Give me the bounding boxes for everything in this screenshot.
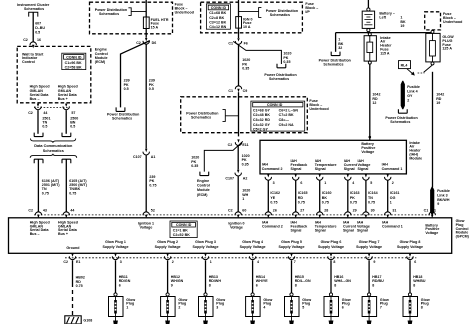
instrument cluster schematics label [17, 3, 50, 11]
svg-text:BK/WH: BK/WH [437, 198, 450, 202]
svg-text:C1=1 BK: C1=1 BK [173, 229, 188, 233]
svg-text:Schematics: Schematics [191, 115, 211, 119]
RL4 pointer arrow [407, 69, 413, 75]
svg-text:Link 4: Link 4 [407, 89, 418, 93]
IAH exit pins [265, 174, 271, 180]
svg-text:0.75: 0.75 [76, 284, 83, 288]
claw power distribution (branch end) [116, 107, 125, 111]
svg-text:19: 19 [400, 24, 404, 28]
glow plug 6 [324, 293, 339, 324]
svg-text:Glow Plug 3: Glow Plug 3 [195, 240, 216, 244]
svg-text:6: 6 [414, 260, 416, 264]
svg-text:0.75: 0.75 [298, 200, 305, 204]
GPCM label [456, 219, 470, 238]
svg-text:Glow Plug 6: Glow Plug 6 [321, 240, 342, 244]
svg-text:PK: PK [350, 196, 355, 200]
fusible link 3 label [437, 189, 450, 206]
svg-text:C1: C1 [424, 209, 429, 213]
svg-text:Voltage: Voltage [361, 150, 374, 154]
svg-text:607: 607 [35, 22, 41, 26]
ECM title text right of box [95, 48, 108, 65]
wire fuse to C2 D6 [145, 29, 147, 38]
svg-text:Signal: Signal [315, 228, 326, 232]
svg-text:Bus –: Bus – [30, 232, 40, 236]
svg-text:125 A: 125 A [442, 47, 452, 51]
wire 1042 RD 19 down right side [432, 72, 434, 187]
ground G108 [65, 316, 81, 324]
svg-text:43: 43 [43, 209, 47, 213]
glow plug fuse label [442, 35, 454, 51]
label 607 D-BU 0.5 [35, 22, 45, 35]
svg-text:C8=—: C8=— [279, 118, 290, 122]
svg-text:D6: D6 [152, 41, 157, 45]
svg-text:C7=2 BK: C7=2 BK [279, 113, 294, 117]
wire main 1020 PK to C1 C9 [238, 45, 240, 86]
inline connector C107 A1 [143, 149, 149, 155]
svg-text:9: 9 [171, 283, 173, 287]
svg-text:Left: Left [379, 16, 386, 20]
svg-text:29: 29 [353, 209, 357, 213]
wire fusible link 3 to GPCM C1 [431, 205, 433, 212]
svg-text:0.5: 0.5 [70, 125, 75, 129]
svg-text:0.5: 0.5 [35, 30, 40, 34]
svg-text:C1=68 GY: C1=68 GY [253, 108, 271, 112]
wire into IGN 0 fuse [238, 0, 240, 17]
GPCM top pin number labels [28, 209, 436, 213]
high speed gmlan bus - label [30, 85, 50, 102]
IAH module label [409, 141, 422, 161]
svg-text:A1: A1 [151, 155, 156, 159]
svg-text:2: 2 [172, 260, 174, 264]
relay contact blade [424, 65, 433, 73]
svg-text:Schematics: Schematics [270, 13, 290, 17]
wire branch to ECM reference [204, 141, 243, 171]
svg-text:57: 57 [71, 111, 75, 115]
svg-text:C1=96 BK: C1=96 BK [65, 61, 82, 65]
svg-text:Command 2: Command 2 [262, 224, 283, 228]
high speed gmlan bus + label [58, 85, 78, 102]
svg-text:Bus –: Bus – [30, 97, 40, 101]
svg-text:IC160: IC160 [322, 191, 332, 195]
svg-text:0.75: 0.75 [149, 183, 156, 187]
svg-text:10 A: 10 A [243, 25, 251, 29]
wire main 239 PK to C107 A1 [145, 44, 147, 148]
svg-text:0.35: 0.35 [283, 60, 290, 64]
label IGN 0 fuse [243, 17, 253, 29]
wire glow plug 2 supply [167, 260, 169, 293]
svg-text:RD/L–GN: RD/L–GN [295, 279, 311, 283]
svg-text:4: 4 [257, 260, 259, 264]
GPCM bottom exit pins [69, 254, 75, 260]
svg-text:6: 6 [256, 283, 258, 287]
GPCM inside top labels [30, 220, 440, 236]
label 1020 PK 0.35 (main) [242, 58, 250, 70]
IAH wires to GPCM [267, 181, 269, 212]
entry connector C1 C9 [235, 86, 241, 93]
svg-text:Supply Voltage: Supply Voltage [240, 245, 266, 249]
wire 607 D-BU (cluster to ECM) [32, 12, 34, 41]
svg-text:26: 26 [273, 209, 277, 213]
svg-text:C2=58 BK: C2=58 BK [65, 65, 82, 69]
svg-text:Engine: Engine [197, 179, 209, 183]
wire 1020 WH to GPCM 60 [237, 176, 239, 212]
ECM exit pin 44 [35, 104, 41, 110]
instrument cluster connector claw [29, 12, 38, 16]
label 6105 (A/T) 2500 (M/T) TN/BK 0.75 [69, 179, 88, 196]
svg-text:8: 8 [372, 283, 374, 287]
claw power distribution (battery branch) [331, 52, 340, 56]
wire 1042 RD to IAH module [369, 64, 371, 140]
IAH battery positive voltage label [361, 142, 375, 154]
label 1020 PK 0.35 (mid) [242, 154, 250, 166]
svg-text:C1: C1 [228, 42, 233, 46]
wire glow plug 5 supply [291, 260, 293, 293]
svg-text:9: 9 [437, 202, 439, 206]
ECM bottom connector dashed line [34, 107, 70, 109]
svg-text:IC162: IC162 [270, 191, 280, 195]
wire 6106/2501 TN to GPCM 43 [37, 159, 39, 212]
GPCM CONN ID table [170, 221, 197, 238]
fuse block underhood 1 label [175, 3, 194, 15]
svg-text:WH/L–GN: WH/L–GN [334, 279, 351, 283]
label HB02 RD 0.75 [76, 276, 85, 288]
svg-text:Supply Voltage: Supply Voltage [155, 245, 181, 249]
svg-text:GY: GY [407, 94, 413, 98]
svg-text:Fusible: Fusible [437, 189, 450, 193]
svg-text:2: 2 [178, 305, 180, 309]
label 239 PK 0.5 (main) [149, 79, 155, 91]
glow plug 3 [199, 293, 214, 324]
svg-text:F6: F6 [244, 42, 248, 46]
svg-text:44: 44 [43, 111, 47, 115]
svg-text:IC161: IC161 [390, 191, 400, 195]
svg-text:CONN ID: CONN ID [176, 223, 192, 227]
svg-text:OG: OG [390, 196, 396, 200]
fuse block underhood 2 dashed box [201, 2, 303, 33]
svg-text:RD: RD [298, 196, 304, 200]
fuse block 2 CONN ID table [206, 4, 230, 29]
wait to start indicator control label [22, 52, 44, 64]
svg-text:Signal: Signal [343, 228, 354, 232]
svg-text:C2: C2 [23, 38, 28, 42]
svg-text:115 A: 115 A [380, 51, 390, 55]
svg-text:Supply Voltage: Supply Voltage [397, 245, 423, 249]
label HB12 WH/GN 9 [171, 275, 184, 287]
inline connector C1 F6 [235, 38, 241, 44]
inline connector C2 D6 [143, 38, 149, 44]
svg-text:3: 3 [273, 181, 275, 185]
label FUEL HTR fuse [151, 18, 169, 30]
inline connector C2 E11 [235, 139, 241, 145]
wire glow plug 8 supply [409, 260, 411, 293]
svg-text:6: 6 [119, 283, 121, 287]
svg-text:C3=32 RD: C3=32 RD [253, 118, 270, 122]
svg-text:Module: Module [197, 188, 210, 192]
svg-text:C1: C1 [228, 89, 233, 93]
svg-text:0.5: 0.5 [42, 125, 47, 129]
wire glow plug 7 supply [368, 260, 370, 293]
svg-text:C9=2 NA: C9=2 NA [279, 123, 294, 127]
label 1020 WH 1 [242, 189, 250, 201]
svg-text:Voltage: Voltage [140, 225, 153, 229]
wire 6105/2500 TN/BK to GPCM 44 [65, 159, 67, 212]
svg-text:C9: C9 [243, 89, 248, 93]
label 1020 PK 0.35 (ecm branch) [191, 156, 199, 168]
glow plug 1 [109, 293, 124, 324]
svg-text:C3=12 BK: C3=12 BK [209, 20, 226, 24]
svg-text:BK: BK [322, 196, 328, 200]
svg-text:2: 2 [392, 181, 394, 185]
svg-text:8: 8 [413, 283, 415, 287]
wire through fuse block 3 [238, 92, 240, 136]
svg-text:1: 1 [242, 197, 244, 201]
data communication schematics label [34, 144, 73, 153]
svg-text:C4=32 GY: C4=32 GY [253, 123, 271, 127]
label 239 PK 0.5 (branch) [124, 79, 130, 91]
glow plug 5 [285, 293, 300, 324]
wire battery positive from top [367, 0, 369, 8]
svg-text:Data Communication: Data Communication [34, 144, 73, 148]
ECM pin C2 16 labels [23, 38, 41, 42]
GPCM bottom connector dashed line [65, 257, 416, 259]
svg-text:Schematics: Schematics [99, 12, 119, 16]
svg-text:C2=52 BK: C2=52 BK [173, 233, 190, 237]
svg-text:1: 1 [324, 181, 326, 185]
glow plug 7 [362, 293, 377, 324]
svg-text:Signal: Signal [358, 167, 369, 171]
label 2500 BN 0.5 [70, 116, 78, 128]
svg-text:28: 28 [324, 209, 328, 213]
junction node at battery [367, 31, 369, 33]
IAH wire labels [270, 191, 399, 204]
wire fuse to C1 F6 [238, 28, 240, 38]
svg-text:Glow Plug 2: Glow Plug 2 [157, 240, 178, 244]
svg-text:Bus +: Bus + [58, 232, 68, 236]
svg-text:19: 19 [436, 101, 440, 105]
intake air heater fuse label [380, 36, 392, 56]
label HB15 RD/L-GN 8 [295, 275, 311, 287]
svg-text:7: 7 [380, 305, 382, 309]
svg-text:Signal: Signal [344, 167, 355, 171]
svg-text:Supply Voltage: Supply Voltage [318, 245, 344, 249]
svg-text:4: 4 [352, 181, 354, 185]
fusible link 4 [401, 81, 405, 110]
svg-text:(ECM): (ECM) [197, 193, 208, 197]
svg-text:30: 30 [371, 209, 375, 213]
fuse FUEL HTR 15A [143, 17, 149, 29]
svg-text:C4=12 BN: C4=12 BN [209, 25, 226, 29]
svg-text:Underhood: Underhood [443, 20, 462, 24]
label 1042 RD 19 [436, 93, 444, 105]
wire battery feed into fuel htr fuse [145, 0, 147, 17]
ECM module dashed box [17, 46, 91, 102]
GPCM bottom pin labels [63, 260, 416, 264]
svg-text:0.35: 0.35 [191, 164, 198, 168]
svg-text:E11: E11 [242, 143, 248, 147]
svg-text:C6=2 L–GN: C6=2 L–GN [279, 108, 299, 112]
battery bus wire [336, 32, 431, 34]
svg-text:Supply Voltage: Supply Voltage [103, 245, 129, 249]
wire branch to power distribution (right) [233, 41, 281, 64]
svg-text:52: 52 [151, 209, 155, 213]
fuse block 3 CONN ID table [251, 101, 305, 131]
svg-text:Schematics: Schematics [390, 120, 410, 124]
svg-text:Ground: Ground [66, 246, 79, 250]
svg-text:Schematics: Schematics [43, 149, 64, 153]
intake air heater fuse holder [368, 33, 371, 36]
glow plug fuse holder [431, 30, 434, 33]
fuse block underhood 1 dashed box [90, 2, 173, 34]
wire 2501 TN (bus -) [37, 110, 39, 134]
svg-text:0.75: 0.75 [42, 191, 49, 195]
svg-text:IC164: IC164 [368, 191, 378, 195]
svg-text:0.75: 0.75 [368, 200, 375, 204]
claw over wire 6105 [62, 159, 71, 163]
svg-text:8: 8 [209, 283, 211, 287]
svg-text:Underhood: Underhood [309, 107, 328, 111]
svg-text:1: 1 [210, 260, 212, 264]
wire main 1020 to C107 A2 [237, 146, 239, 170]
svg-text:Schematics: Schematics [269, 77, 289, 81]
svg-text:32: 32 [338, 46, 342, 50]
svg-text:CONN ID: CONN ID [66, 55, 82, 59]
svg-text:I/P: I/P [305, 10, 310, 14]
label 239 PK 0.75 [149, 175, 156, 187]
IAH pin labels inside box [262, 159, 403, 171]
battery left label [379, 12, 395, 20]
claw power distribution (branch) [277, 64, 286, 68]
svg-text:0.5: 0.5 [124, 87, 129, 91]
svg-text:Glow Plug 1: Glow Plug 1 [105, 240, 126, 244]
svg-text:E1: E1 [76, 260, 80, 264]
svg-text:31: 31 [392, 209, 396, 213]
wire branch left to power distribution [335, 33, 337, 52]
svg-text:1: 1 [390, 200, 392, 204]
svg-text:CONN ID: CONN ID [211, 6, 227, 10]
svg-text:C2: C2 [28, 209, 33, 213]
claw ECM reference [200, 172, 209, 176]
svg-text:Signal: Signal [315, 167, 326, 171]
IAH module box [260, 140, 406, 174]
svg-text:Bus +: Bus + [58, 97, 68, 101]
inline connector C107 A2 [235, 170, 241, 176]
svg-text:D–BU: D–BU [35, 26, 45, 30]
svg-text:6: 6 [300, 181, 302, 185]
svg-text:4: 4 [263, 305, 265, 309]
IAH pin numbers [273, 181, 394, 185]
svg-text:Glow Plug 4: Glow Plug 4 [242, 240, 263, 244]
svg-text:9: 9 [373, 260, 375, 264]
ECM exit pin 57 [63, 104, 69, 110]
svg-text:16: 16 [37, 38, 41, 42]
svg-text:0.35: 0.35 [242, 162, 249, 166]
fusible link 4 label [407, 85, 420, 103]
svg-text:0.5: 0.5 [149, 87, 154, 91]
svg-text:8: 8 [421, 305, 423, 309]
svg-text:Link 3: Link 3 [437, 193, 448, 197]
svg-text:(ECM): (ECM) [95, 60, 106, 64]
svg-text:C2=48 BK: C2=48 BK [253, 113, 270, 117]
svg-text:0.75: 0.75 [270, 200, 277, 204]
svg-text:44: 44 [70, 209, 74, 213]
svg-text:Command 1: Command 1 [382, 224, 403, 228]
claw over wire 6106 [34, 159, 43, 163]
junction dot above IAH module [369, 136, 372, 139]
wire glow plug 6 supply [330, 260, 332, 293]
label 1042 RD 12 [372, 93, 380, 105]
svg-text:C5=2 GY: C5=2 GY [253, 128, 269, 132]
svg-text:Supply Voltage: Supply Voltage [279, 245, 305, 249]
GPCM inside bottom labels [66, 240, 423, 250]
svg-text:Voltage: Voltage [230, 225, 243, 229]
label HB18 WH/BU 8 [413, 275, 426, 287]
svg-text:0.75: 0.75 [69, 191, 76, 195]
svg-text:Schematics: Schematics [24, 7, 44, 11]
svg-text:C107: C107 [225, 177, 234, 181]
svg-text:Fusible: Fusible [407, 85, 420, 89]
GPCM top entry pin arrows [35, 212, 41, 219]
svg-text:Schematics: Schematics [112, 116, 132, 120]
svg-text:6: 6 [342, 305, 344, 309]
label HB11 RD/GN 6 [119, 275, 131, 287]
wire 239 PK 0.75 to GPCM 52 [145, 155, 147, 212]
svg-text:IC165: IC165 [298, 191, 308, 195]
svg-text:3: 3 [216, 305, 218, 309]
svg-text:0.35: 0.35 [242, 67, 249, 71]
fuse block underhood 3 label [309, 99, 328, 111]
svg-text:1: 1 [434, 209, 436, 213]
svg-text:Glow Plug 8: Glow Plug 8 [400, 240, 421, 244]
svg-text:C107: C107 [133, 155, 142, 159]
label 1020 PK 0.35 (branch) [283, 52, 291, 64]
wire glow plug 4 supply [252, 260, 254, 293]
label HB17 RD/BU 8 [372, 275, 384, 287]
glow plug 8 [403, 293, 418, 324]
label 2501 TN 0.5 [42, 116, 50, 128]
wire 2500 BN (bus +) [65, 110, 67, 134]
fuse block underhood 3 dashed box [181, 97, 308, 133]
fuse IGN 0 10A [236, 17, 242, 29]
fuse block underhood top-right dashed box [425, 12, 441, 30]
svg-text:8: 8 [334, 283, 336, 287]
battery left [367, 8, 370, 11]
ECM entry pin arrow (wait to start) [30, 42, 36, 49]
svg-text:Command 2: Command 2 [262, 167, 283, 171]
svg-text:8: 8 [295, 283, 297, 287]
svg-text:C2: C2 [228, 209, 233, 213]
glow plug 4 [246, 293, 261, 324]
svg-text:2: 2 [407, 99, 409, 103]
label 1 BK 19 [400, 16, 406, 28]
svg-text:Glow Plug 7: Glow Plug 7 [359, 240, 380, 244]
overbrace from data communication [30, 154, 76, 158]
power distribution schematics reference inside block 3 [223, 110, 239, 122]
svg-text:0.75: 0.75 [322, 200, 329, 204]
svg-text:1: 1 [126, 305, 128, 309]
svg-text:RL4: RL4 [401, 63, 408, 67]
GPCM module box [9, 218, 452, 254]
wire glow plug 1 supply [115, 260, 117, 293]
svg-text:5: 5 [370, 181, 372, 185]
svg-text:Supply Voltage: Supply Voltage [193, 245, 219, 249]
svg-text:60: 60 [242, 209, 246, 213]
svg-text:Control: Control [197, 184, 210, 188]
svg-text:IC163: IC163 [350, 191, 360, 195]
fuse block underhood top-right label [443, 12, 462, 24]
claw power distribution (fusible link 4) [398, 109, 407, 113]
label HB14 WH/YE 6 [256, 275, 268, 287]
svg-text:(GPCM): (GPCM) [456, 234, 470, 238]
